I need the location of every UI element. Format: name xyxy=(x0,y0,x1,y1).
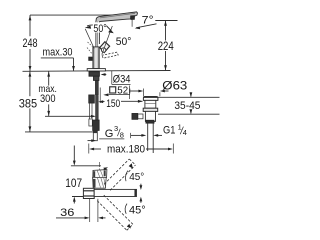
pop-up waste flange xyxy=(143,97,158,101)
svg-text:G1: G1 xyxy=(163,124,175,136)
dimension 385 bottom reference line xyxy=(25,131,96,133)
dimension 107 arrows xyxy=(73,146,75,162)
supply hose left lines xyxy=(88,103,90,119)
dimension 107 bottom reference line xyxy=(72,196,92,198)
angle 7 sloped line with arrow xyxy=(136,24,157,28)
faucet body xyxy=(93,47,99,69)
faucet base escutcheon xyxy=(87,69,105,71)
dimension 35-45 arrows xyxy=(190,92,192,96)
svg-text:300: 300 xyxy=(40,93,56,105)
svg-text:248: 248 xyxy=(23,36,38,50)
thread G3/8 underline leader xyxy=(99,138,124,140)
svg-text:35-45: 35-45 xyxy=(174,100,200,112)
dimension 150 line left arrow xyxy=(101,101,105,103)
trap inlet flow arrow xyxy=(98,168,106,173)
dimension 224 line xyxy=(165,21,167,41)
faucet lever handle closed xyxy=(100,42,110,53)
rotation arc lower xyxy=(125,204,127,214)
supply hose G3/8 nipple xyxy=(93,131,97,141)
dimension 35-45 reference lines xyxy=(158,96,220,98)
angle 45 upper leader arrow to pipe xyxy=(140,184,142,186)
pop-up rod knob rear xyxy=(89,57,93,61)
angle 45 lower leader arrow to pipe xyxy=(140,201,142,203)
svg-text:107: 107 xyxy=(65,176,82,190)
trap inlet upper fitting xyxy=(93,170,107,178)
trap outlet pipe xyxy=(94,189,136,196)
dimension 150 line right arrow xyxy=(121,100,143,102)
top extension line xyxy=(30,14,112,16)
supply hose left connector xyxy=(89,95,95,103)
dimension max.300 line xyxy=(48,71,50,85)
angle 50 right arc arrow xyxy=(107,26,112,31)
svg-text:36: 36 xyxy=(60,207,74,219)
dimension 36 line arrows xyxy=(56,217,85,219)
dimension square 52 leader arrow xyxy=(109,94,130,96)
pop-up waste tailpipe xyxy=(147,123,149,151)
countertop deck line xyxy=(23,70,171,73)
pop-up waste body xyxy=(145,111,155,121)
svg-text:50°: 50° xyxy=(93,23,106,35)
dimension 36 extension lines xyxy=(89,199,91,222)
svg-text:385: 385 xyxy=(19,97,38,111)
dimension max.30 leader xyxy=(41,57,74,59)
rotation arc lower arrowhead on dashed pipe xyxy=(127,224,131,229)
svg-text:150: 150 xyxy=(106,98,120,110)
dimension max.300 bottom reference line with arrow to hose xyxy=(45,115,94,117)
dimension diameter 34 leader arrow xyxy=(102,74,106,76)
mounting shank nut xyxy=(89,72,99,77)
svg-text:4: 4 xyxy=(183,128,187,137)
svg-text:Ø63: Ø63 xyxy=(162,79,187,92)
faucet spout column xyxy=(95,21,97,47)
mounting shank stub xyxy=(93,76,99,80)
faucet handle open position dashed xyxy=(102,52,118,58)
svg-text:3: 3 xyxy=(114,124,118,133)
angle 50 left arc arrow and leader xyxy=(87,25,93,26)
pop-up waste locking ring xyxy=(143,108,158,111)
angle 50 first text xyxy=(93,22,107,32)
trap pipe rotated up dashed xyxy=(104,159,136,190)
svg-text:Ø34: Ø34 xyxy=(113,73,131,85)
supply hose right xyxy=(95,81,98,95)
trap inlet lower fitting xyxy=(93,177,107,188)
rotation arc upper xyxy=(126,171,128,182)
svg-text:224: 224 xyxy=(158,40,174,53)
trap pipe rotated down dashed xyxy=(97,195,133,230)
trap nut xyxy=(83,188,94,198)
svg-text:45°: 45° xyxy=(129,172,144,183)
svg-text:50°: 50° xyxy=(116,36,132,48)
svg-text:max.180: max.180 xyxy=(107,143,145,155)
supply hose lower connector xyxy=(93,120,100,131)
dimension square 52 text xyxy=(110,87,116,93)
dimension diameter 63 line xyxy=(129,89,131,94)
faucet handle open axis line xyxy=(102,26,113,55)
dimension max.180 line xyxy=(88,144,90,154)
dimension 385 line xyxy=(29,71,31,96)
svg-text:max.30: max.30 xyxy=(43,47,73,59)
pop-up waste neck xyxy=(145,100,156,108)
angle 7 reference line xyxy=(155,20,177,22)
dimension 107 top reference line xyxy=(71,165,101,167)
svg-text:8: 8 xyxy=(120,131,124,140)
svg-text:45°: 45° xyxy=(129,204,146,216)
pop-up waste rod port xyxy=(138,114,143,119)
spout swivel dashed marks left xyxy=(88,42,93,47)
faucet spout aerator tip xyxy=(131,16,135,20)
dimension 248 line xyxy=(29,15,31,36)
faucet spout xyxy=(96,12,138,22)
svg-text:1: 1 xyxy=(178,123,182,132)
trap inlet axis xyxy=(98,162,100,191)
thread G1 1/4 arrows xyxy=(130,133,132,138)
rotation arc upper arrowhead on dashed pipe xyxy=(129,163,133,168)
svg-text:G: G xyxy=(105,128,114,140)
pop-up waste tailpipe collar xyxy=(146,120,154,123)
